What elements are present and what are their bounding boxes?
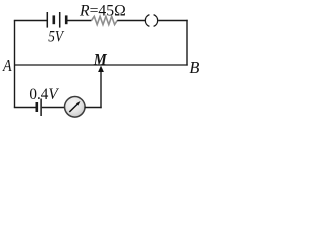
wire: top rail, corner to battery 5V [14,20,47,22]
wire: bottom rail, corner to battery 0.4V [14,107,36,109]
svg-text:B: B [189,58,200,77]
svg-text:A: A [2,56,12,75]
galvanometer needle [69,103,78,112]
svg-text:5V: 5V [48,28,65,45]
wire: battery 5V to resistor R [67,20,92,22]
wire: battery 0.4V to galvanometer [42,107,65,109]
galvanometer G (gray circle with needle) [65,97,86,118]
battery B2 0.4V (short thick negative plate, long positive plate) [37,99,41,117]
resistor R=45ohm (gray zigzag) [92,16,118,24]
wire: riser up to jockey at M [100,68,102,108]
svg-text:R=45Ω: R=45Ω [79,3,126,20]
wire: potentiometer wire A to B [14,64,188,66]
battery B1 5V (two cells: long,short,long,short plates) [47,12,66,28]
wire: right vertical, top-right corner down to node B [186,20,188,66]
svg-text:M: M [93,50,108,69]
wire: resistor to element E1 [117,20,146,22]
element E1: open-circle device ( ) in top rail [145,15,157,27]
wire: left vertical from top-left corner through node A to bottom-left corner [14,21,16,108]
wire: galvanometer to sliding contact riser [85,107,102,109]
wire: element E1 to top-right corner [158,20,188,22]
arrowhead: sliding contact pointing at M on wire AB [98,66,104,72]
svg-text:0.4V: 0.4V [29,86,59,103]
